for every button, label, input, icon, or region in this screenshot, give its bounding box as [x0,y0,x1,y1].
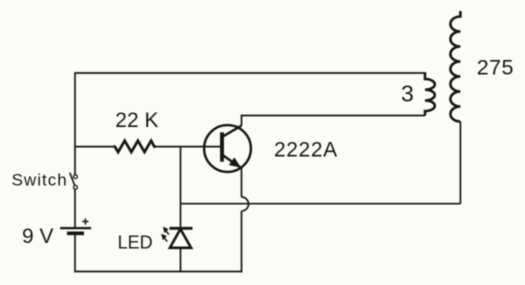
svg-text:2222A: 2222A [274,138,338,161]
svg-text:22 K: 22 K [115,109,158,132]
svg-text:9 V: 9 V [22,225,54,248]
svg-text:275: 275 [477,55,514,79]
svg-text:Switch: Switch [12,171,68,190]
svg-text:3: 3 [401,81,414,107]
svg-text:LED: LED [118,233,153,253]
